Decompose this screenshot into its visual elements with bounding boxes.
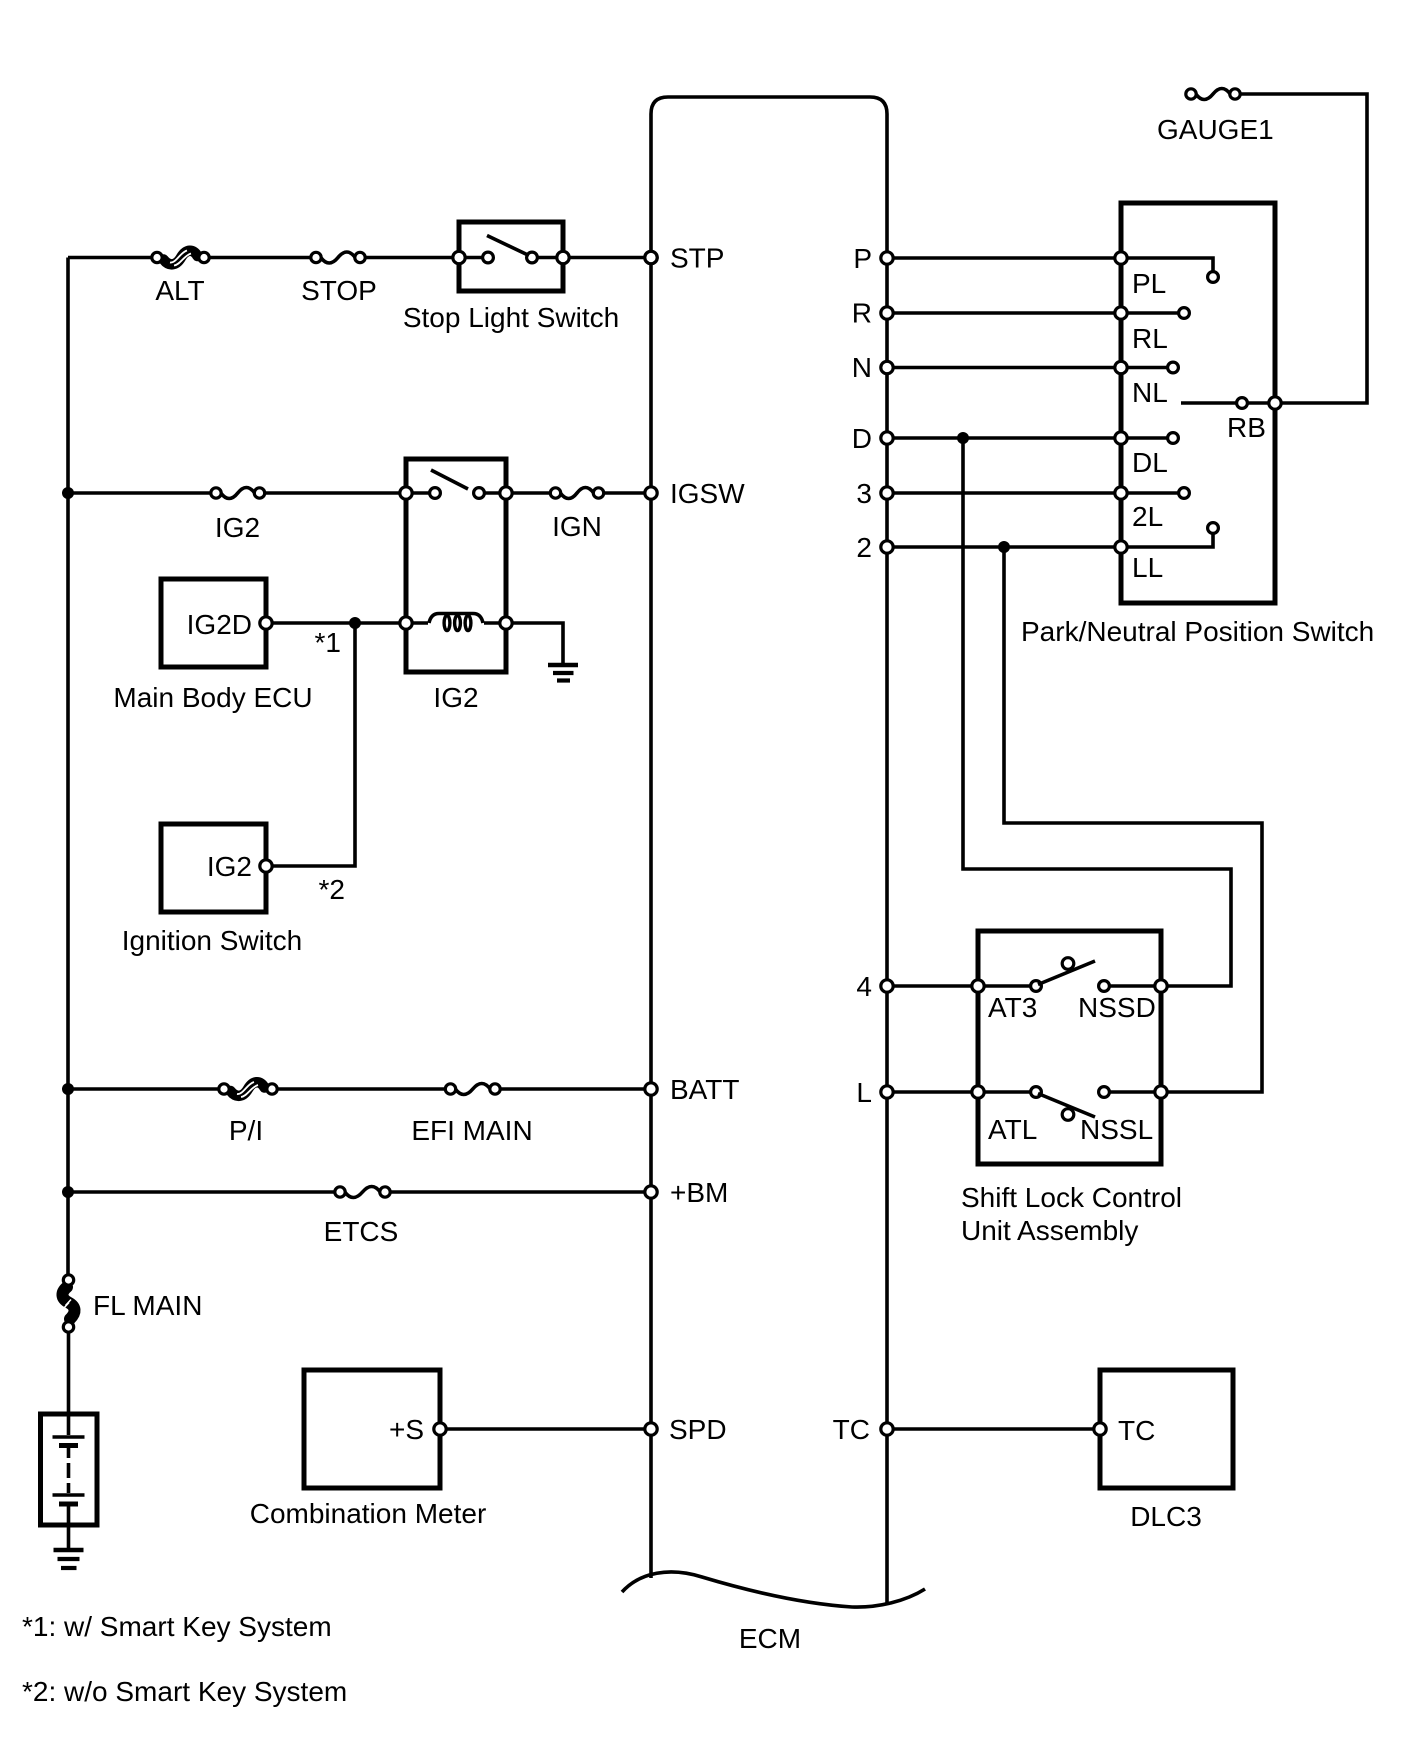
fuse STOP xyxy=(311,252,321,262)
wire R row xyxy=(887,311,1121,315)
svg-text:Combination Meter: Combination Meter xyxy=(250,1498,487,1529)
svg-text:IGN: IGN xyxy=(552,511,602,542)
node BATT xyxy=(645,1083,657,1095)
fuse ETCS xyxy=(335,1187,345,1197)
svg-text:*2: *2 xyxy=(319,874,345,905)
Shift Lock Control Unit box xyxy=(978,931,1161,1164)
ECM pins left edge xyxy=(645,251,657,263)
ECM box outline xyxy=(651,97,887,1604)
wire N row xyxy=(887,366,1121,370)
battery xyxy=(41,1414,98,1525)
relay coil xyxy=(400,617,412,629)
svg-text:ALT: ALT xyxy=(155,275,204,306)
svg-text:FL MAIN: FL MAIN xyxy=(93,1290,202,1321)
svg-text:STP: STP xyxy=(670,243,724,274)
contact DL xyxy=(1121,436,1167,440)
junction on rail at +BM row xyxy=(62,1186,74,1198)
svg-text:Unit Assembly: Unit Assembly xyxy=(961,1215,1138,1246)
svg-text:NSSL: NSSL xyxy=(1080,1114,1153,1145)
wire +BM row xyxy=(68,1190,651,1194)
contact RL xyxy=(1121,311,1178,315)
svg-text:2: 2 xyxy=(856,532,872,563)
svg-text:IG2: IG2 xyxy=(207,851,252,882)
svg-text:ETCS: ETCS xyxy=(324,1216,399,1247)
fuse IG2 xyxy=(211,488,221,498)
Main Body ECU box xyxy=(161,579,266,667)
svg-text:D: D xyxy=(852,423,872,454)
svg-text:EFI MAIN: EFI MAIN xyxy=(411,1115,532,1146)
Park/Neutral Position Switch box xyxy=(1121,203,1275,603)
fusible link ALT xyxy=(164,251,198,265)
wire IG2D to relay with branch down xyxy=(272,623,355,866)
pin +S xyxy=(434,1423,446,1435)
svg-text:BATT: BATT xyxy=(670,1074,739,1105)
DLC3 box xyxy=(1100,1370,1233,1488)
junction node 2 branch xyxy=(998,541,1010,553)
svg-text:Ignition Switch: Ignition Switch xyxy=(122,925,303,956)
stop light switch box xyxy=(459,222,563,291)
svg-text:ECM: ECM xyxy=(739,1623,801,1654)
svg-text:SPD: SPD xyxy=(669,1414,727,1445)
switch ATL/NSSL xyxy=(972,1086,984,1098)
wire 2 row xyxy=(887,545,1121,549)
junction on rail at BATT row xyxy=(62,1083,74,1095)
node STP xyxy=(645,251,657,263)
wire D row xyxy=(887,436,1121,440)
fuse EFI MAIN xyxy=(445,1084,455,1094)
Ignition Switch box xyxy=(161,824,266,912)
fusible link FL MAIN xyxy=(62,1287,74,1319)
node SPD xyxy=(645,1423,657,1435)
wire P row xyxy=(887,256,1121,260)
wire L row xyxy=(887,1090,1161,1094)
svg-text:NL: NL xyxy=(1132,377,1168,408)
fuse GAUGE1 xyxy=(1186,89,1196,99)
svg-text:DL: DL xyxy=(1132,447,1168,478)
svg-text:P/I: P/I xyxy=(229,1115,263,1146)
contact PL xyxy=(1121,258,1213,271)
ground (relay coil) xyxy=(548,663,578,668)
svg-text:+BM: +BM xyxy=(670,1177,728,1208)
svg-text:*2: w/o Smart Key System: *2: w/o Smart Key System xyxy=(22,1676,347,1707)
Combination Meter box xyxy=(304,1370,440,1488)
svg-text:AT3: AT3 xyxy=(988,992,1037,1023)
wire IGSW row xyxy=(68,491,651,495)
svg-text:Shift Lock Control: Shift Lock Control xyxy=(961,1182,1182,1213)
svg-text:Park/Neutral Position Switch: Park/Neutral Position Switch xyxy=(1021,616,1374,647)
stop light switch blade xyxy=(487,236,529,256)
svg-text:GAUGE1: GAUGE1 xyxy=(1157,114,1274,145)
svg-text:TC: TC xyxy=(1118,1415,1155,1446)
svg-text:3: 3 xyxy=(856,478,872,509)
junction on rail at IGSW row xyxy=(62,487,74,499)
junction node D branch xyxy=(957,432,969,444)
wire RB common xyxy=(1181,94,1367,403)
wire FL MAIN to battery xyxy=(67,1332,71,1414)
pin IG2 ignition switch xyxy=(260,860,272,872)
wire 3 row xyxy=(887,491,1121,495)
node +BM xyxy=(645,1186,657,1198)
wire relay coil row xyxy=(271,623,563,663)
svg-text:P: P xyxy=(853,243,872,274)
pins on park/neutral box left edge xyxy=(1115,252,1127,264)
svg-text:*1: w/ Smart Key System: *1: w/ Smart Key System xyxy=(22,1611,332,1642)
svg-text:*1: *1 xyxy=(315,627,341,658)
ECM bottom break wavy line xyxy=(622,1572,925,1607)
svg-text:IGSW: IGSW xyxy=(670,478,745,509)
wire 4 row xyxy=(887,984,1161,988)
pin IG2D xyxy=(260,617,272,629)
svg-text:ATL: ATL xyxy=(988,1114,1037,1145)
wire D branch to NSSD xyxy=(963,438,1231,986)
fusible link P/I xyxy=(231,1082,265,1096)
svg-text:N: N xyxy=(852,352,872,383)
wire +S to SPD xyxy=(446,1427,651,1431)
svg-text:LL: LL xyxy=(1132,552,1163,583)
relay switch blade xyxy=(431,470,468,489)
stop light switch pins xyxy=(459,256,563,260)
contact 2L xyxy=(1121,491,1178,495)
node IGSW xyxy=(645,487,657,499)
svg-text:IG2: IG2 xyxy=(433,682,478,713)
svg-text:RB: RB xyxy=(1227,412,1266,443)
junction node *1 xyxy=(349,617,361,629)
svg-text:PL: PL xyxy=(1132,268,1166,299)
pin TC DLC3 xyxy=(1094,1423,1106,1435)
wire STP row xyxy=(68,256,651,260)
fuse IGN xyxy=(550,488,560,498)
wire TC row xyxy=(887,1427,1100,1431)
wire left rail xyxy=(66,258,70,1275)
svg-text:NSSD: NSSD xyxy=(1078,992,1156,1023)
svg-text:4: 4 xyxy=(856,971,872,1002)
relay IG2 box xyxy=(406,459,506,672)
svg-text:L: L xyxy=(856,1077,872,1108)
wire 2 branch to NSSL xyxy=(1004,547,1262,1092)
svg-text:2L: 2L xyxy=(1132,501,1163,532)
svg-text:Stop Light Switch: Stop Light Switch xyxy=(403,302,619,333)
svg-text:IG2D: IG2D xyxy=(187,609,252,640)
svg-text:IG2: IG2 xyxy=(215,512,260,543)
contact NL xyxy=(1121,366,1167,370)
switch AT3/NSSD xyxy=(972,980,984,992)
svg-text:DLC3: DLC3 xyxy=(1130,1501,1202,1532)
svg-text:R: R xyxy=(852,298,872,329)
contact LL xyxy=(1121,534,1213,547)
svg-text:TC: TC xyxy=(833,1414,870,1445)
relay switch contacts xyxy=(400,487,412,499)
svg-text:RL: RL xyxy=(1132,323,1168,354)
svg-text:Main Body ECU: Main Body ECU xyxy=(113,682,312,713)
svg-text:+S: +S xyxy=(389,1414,424,1445)
wire BATT row xyxy=(68,1087,651,1091)
ground (battery) xyxy=(54,1548,84,1553)
svg-text:STOP: STOP xyxy=(301,275,377,306)
